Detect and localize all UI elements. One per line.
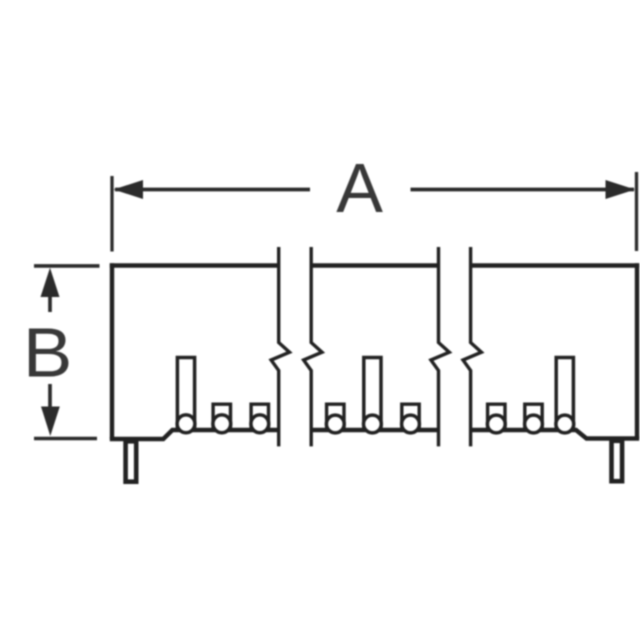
section 1 pin circle 2	[213, 415, 231, 433]
section 3 tall pin	[556, 358, 573, 431]
section 2 pin housing 3	[402, 404, 419, 430]
section 3 pin circle 2	[525, 415, 543, 433]
dimension A arrowhead right	[606, 180, 636, 199]
break line right of section 1	[271, 247, 289, 446]
section 1 pin housing 2	[213, 404, 230, 430]
break line left of section 3	[463, 247, 481, 446]
dimension A line left segment	[115, 188, 310, 192]
section 1 pin circle 1	[177, 415, 195, 433]
dimension B lower arrow stem	[48, 384, 52, 407]
break line right of section 2	[431, 247, 449, 446]
section 3 top line	[471, 263, 640, 268]
svg-text:B: B	[23, 313, 73, 391]
section 2 pin circle 1	[326, 415, 344, 433]
break line left of section 2	[304, 247, 322, 446]
section 3 pin circle 3	[556, 415, 574, 433]
section 1 mounting leg	[126, 441, 137, 481]
section 3 pin housing 1	[488, 404, 505, 430]
section 3 right edge	[635, 263, 639, 438]
section 2 bottom line	[311, 428, 438, 432]
section 3 bottom line with jog	[471, 430, 640, 439]
dimension B upper arrowhead	[41, 268, 60, 297]
section 2 pin housing 1	[327, 404, 344, 430]
section 2 tall pin	[364, 358, 381, 431]
section 3 pin circle 1	[487, 415, 505, 433]
section 1 pin housing 3	[251, 404, 268, 430]
dimension A line right segment	[411, 188, 635, 192]
section 3 mounting leg	[612, 441, 623, 481]
dimension B upper arrow stem	[48, 296, 52, 312]
dimension B lower arrowhead	[41, 407, 60, 437]
section 1 tall pin	[177, 358, 194, 431]
dimension B bottom tick	[34, 437, 97, 441]
section 2 top line	[311, 263, 438, 268]
section 1 left edge	[110, 263, 114, 439]
dimension A extension line right	[635, 172, 638, 251]
section 3 pin housing 2	[525, 404, 542, 430]
dimension A extension line left	[110, 176, 113, 252]
section 1 top line	[110, 263, 279, 268]
dimension A arrowhead left	[114, 180, 144, 199]
section 2 pin circle 3	[402, 415, 420, 433]
section 1 bottom line with jog	[110, 430, 279, 439]
section 2 pin circle 2	[364, 415, 382, 433]
svg-text:A: A	[336, 149, 383, 227]
section 1 pin circle 3	[251, 415, 269, 433]
dimension B top tick	[34, 264, 100, 268]
